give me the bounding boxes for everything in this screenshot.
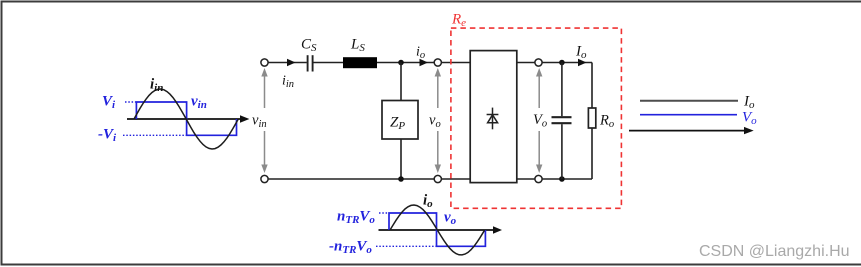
dotted level line -nTRVo [376,245,437,247]
capacitor CS [308,55,313,71]
dashed box Re [451,28,622,208]
wire: bottom input run [268,178,470,180]
terminal at rectifier input bottom [434,175,441,182]
node junction top of ZP [398,60,404,66]
arrow I_o [578,59,587,67]
node top of capacitor [559,60,565,66]
arrow i_in [287,59,296,67]
terminal at rectifier input top [434,59,441,66]
square wave v_o (blue) [389,213,485,246]
output line I_o (gray) [640,100,738,102]
arrow i_o [420,59,429,67]
wire: rectifier output bottom [517,178,592,180]
svg-text:vin: vin [191,94,207,112]
dotted level line +nTRVo [379,212,389,214]
svg-text:nTRVo: nTRVo [337,209,375,227]
svg-text:Vo: Vo [742,110,757,128]
node bottom of capacitor [559,176,565,182]
svg-text:Ro: Ro [599,113,614,131]
wire: rectifier output top [517,62,592,64]
wire: ZP branch [400,63,402,180]
svg-text:vo: vo [444,210,457,228]
svg-text:Io: Io [743,94,755,112]
measure arrow v_in (gray) [261,68,267,173]
inductor LS [343,57,377,68]
svg-text:LS: LS [350,37,365,55]
svg-text:CS: CS [301,37,317,55]
resistor Ro branch wires [591,63,593,180]
filter capacitor Co [552,63,572,180]
wire: top input run [268,62,307,64]
rectifier block U1 [470,51,517,183]
svg-text:-nTRVo: -nTRVo [329,239,372,257]
output waveform axis [379,226,503,233]
svg-text:Vo: Vo [533,112,547,130]
input terminal top [261,59,268,66]
svg-text:iin: iin [282,74,294,91]
output terminal bottom [535,175,542,182]
output terminal top [535,59,542,66]
output time axis arrow [629,127,754,134]
sine wave i_o (black) [390,205,485,255]
input waveform axis [127,115,249,122]
wire: LS to rectifier [377,62,470,64]
svg-text:Vi: Vi [102,94,116,112]
measure arrow v_o (gray) [435,68,441,173]
svg-text:vin: vin [252,113,267,131]
dotted level line -Vi [123,134,186,136]
svg-text:io: io [416,45,425,62]
output line V_o (blue) [640,114,737,116]
wire: CS to LS [314,62,344,64]
dotted level line +Vi [125,101,136,103]
impedance ZP [382,101,418,140]
diode D1 inside rectifier [487,108,499,130]
sine wave i_in (black) [134,89,238,149]
node junction bottom of ZP [398,176,404,182]
svg-text:vo: vo [429,113,441,131]
svg-text:Io: Io [575,44,587,62]
svg-text:-Vi: -Vi [98,127,117,145]
measure arrow V_o (gray) [536,68,542,173]
input terminal bottom [261,175,268,182]
svg-text:io: io [423,193,433,211]
svg-text:Re: Re [451,12,466,30]
square wave v_in (blue) [136,102,236,135]
resistor Ro [588,108,595,128]
svg-text:CSDN @Liangzhi.Hu: CSDN @Liangzhi.Hu [699,243,850,260]
svg-text:iin: iin [150,77,163,95]
